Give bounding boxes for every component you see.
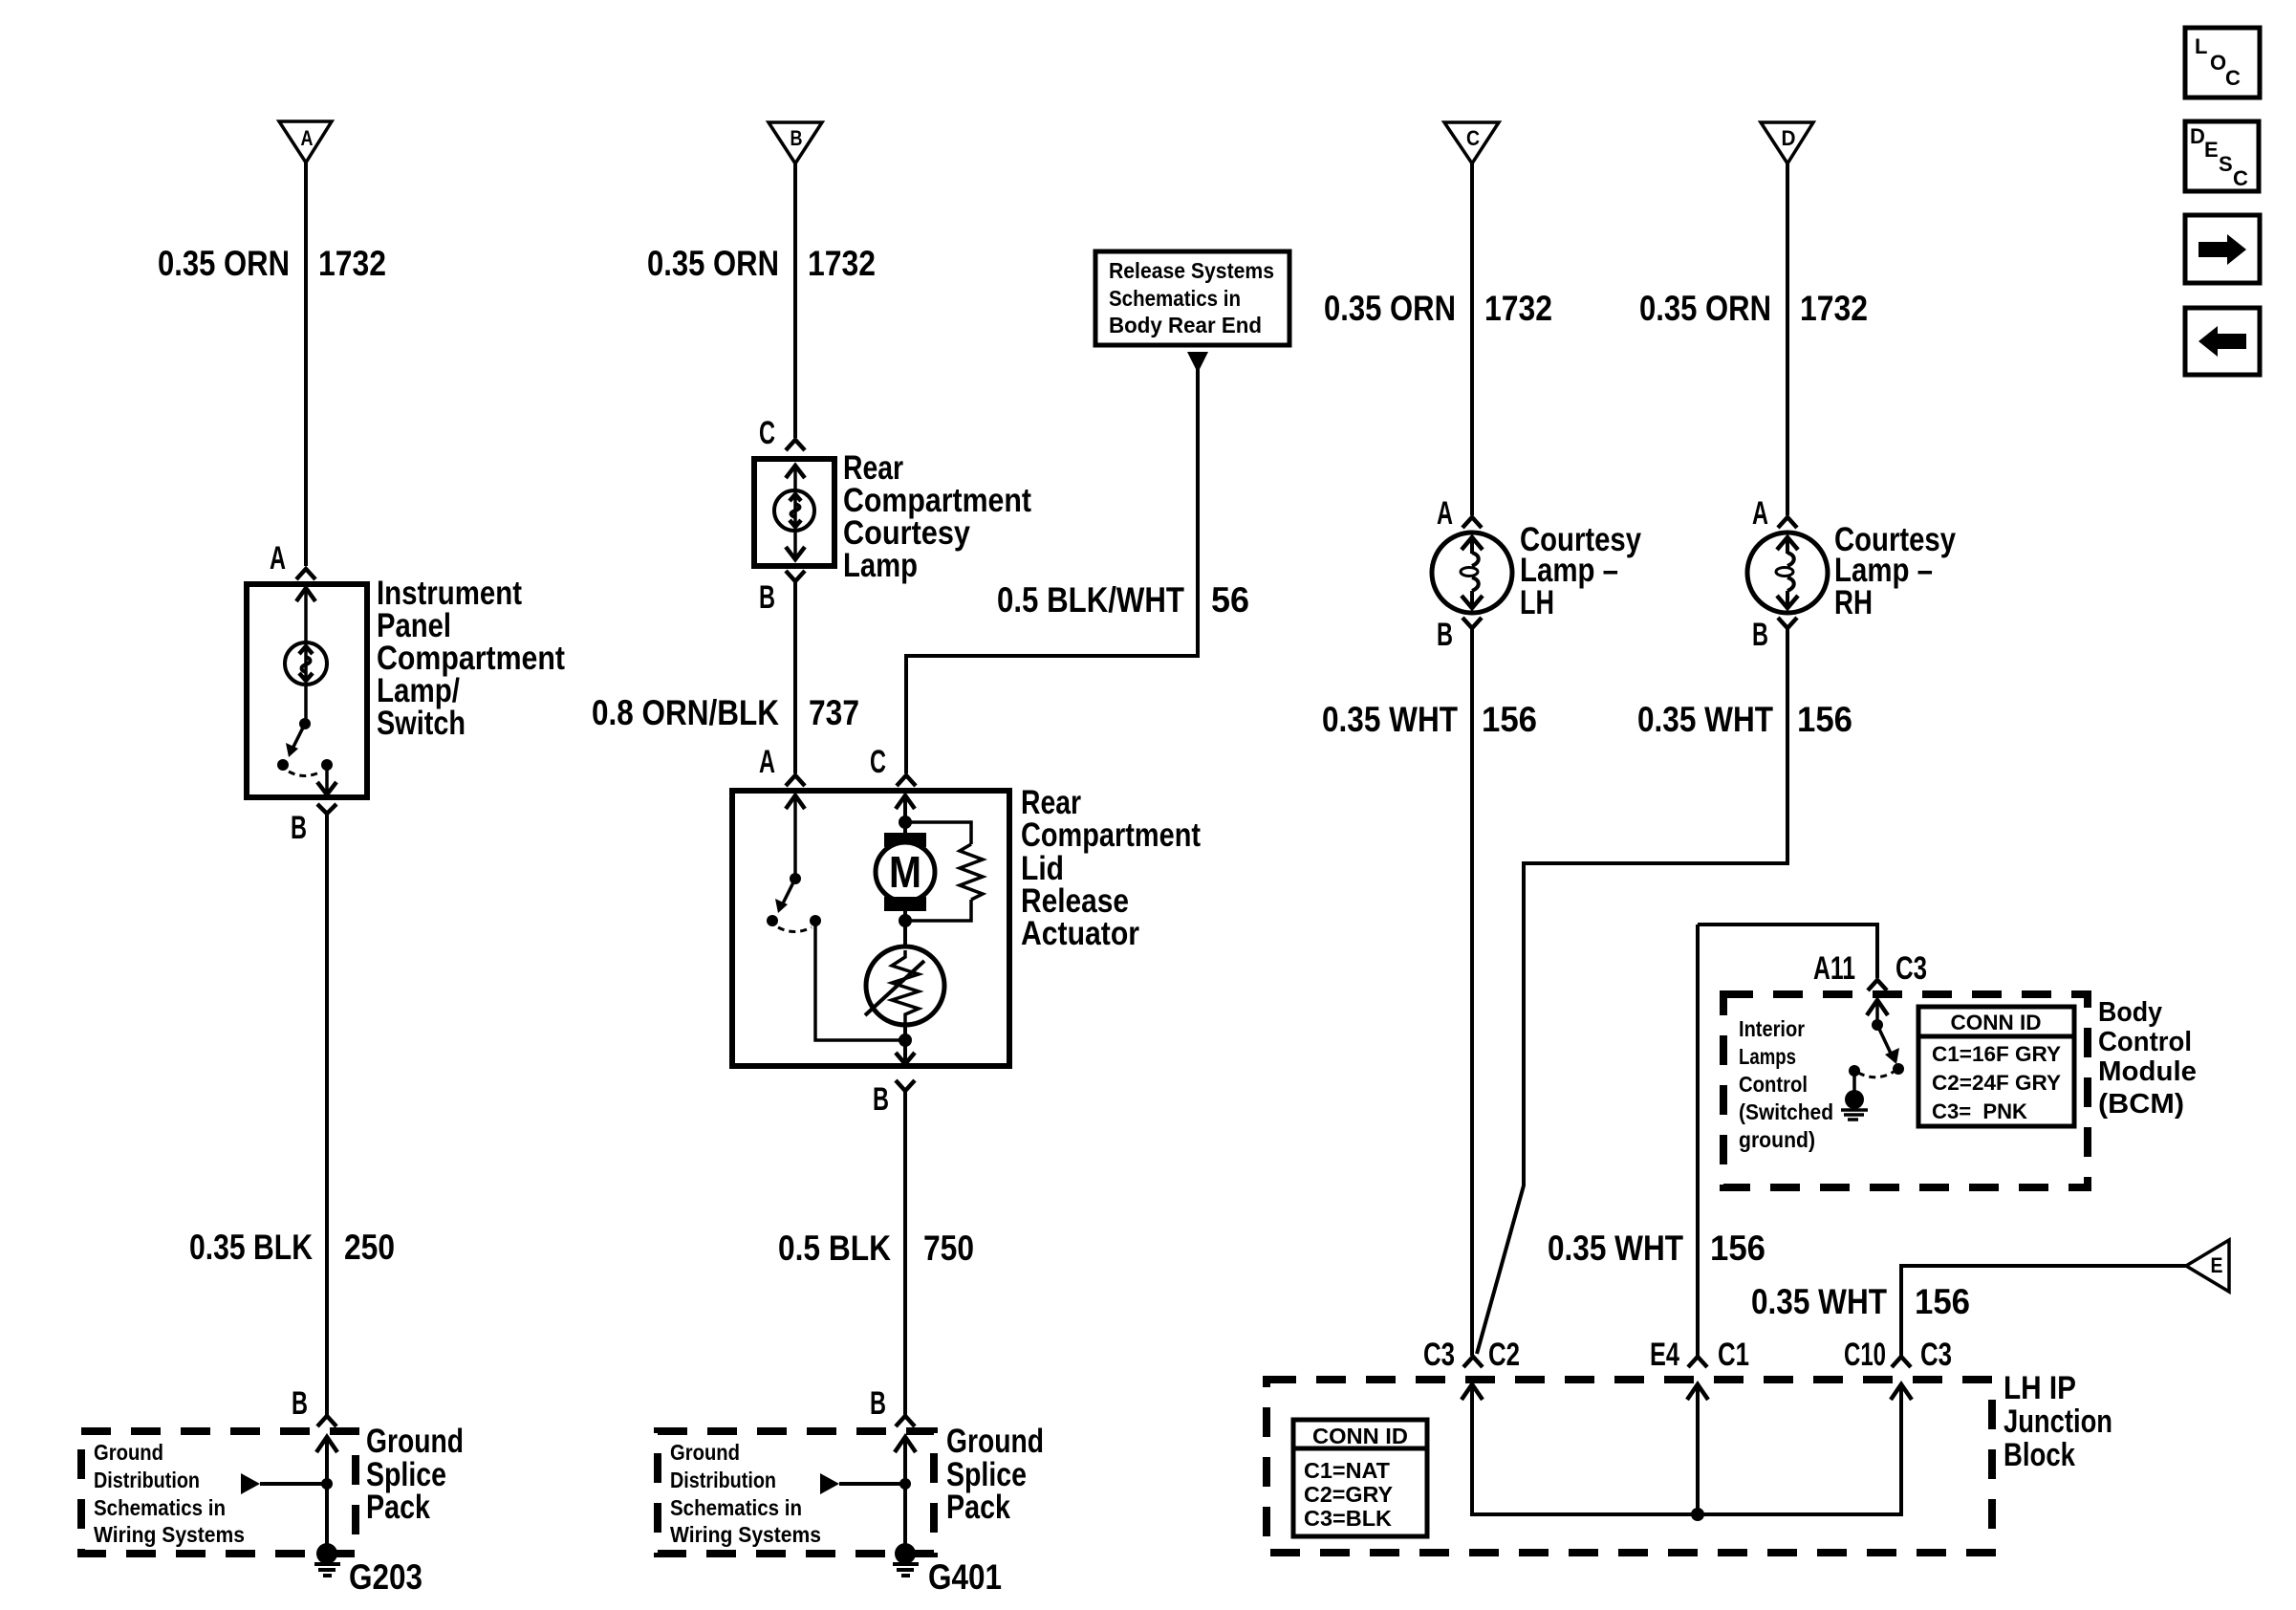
svg-text:Distribution: Distribution xyxy=(94,1468,200,1492)
svg-text:Interior: Interior xyxy=(1739,1016,1805,1041)
svg-text:Compartment: Compartment xyxy=(1021,816,1201,854)
svg-text:Lamp: Lamp xyxy=(843,547,918,584)
svg-text:B: B xyxy=(791,126,803,150)
svg-text:737: 737 xyxy=(809,693,859,732)
svg-text:0.5 BLK/WHT: 0.5 BLK/WHT xyxy=(997,580,1184,620)
svg-text:Schematics in: Schematics in xyxy=(94,1495,226,1520)
svg-text:0.35 ORN: 0.35 ORN xyxy=(647,244,779,283)
svg-text:Release Systems: Release Systems xyxy=(1109,258,1274,283)
svg-text:LH IP: LH IP xyxy=(2004,1370,2076,1406)
svg-text:A11: A11 xyxy=(1813,950,1855,987)
svg-text:C3=BLK: C3=BLK xyxy=(1304,1506,1392,1531)
svg-text:56: 56 xyxy=(1211,580,1249,620)
svg-text:Lamps: Lamps xyxy=(1739,1044,1796,1069)
svg-text:1732: 1732 xyxy=(1800,289,1868,328)
svg-text:A: A xyxy=(301,126,314,150)
svg-text:C: C xyxy=(870,744,886,780)
svg-text:Distribution: Distribution xyxy=(670,1468,776,1492)
svg-text:Ground: Ground xyxy=(94,1440,163,1465)
svg-text:C2: C2 xyxy=(1488,1337,1520,1373)
svg-text:C: C xyxy=(2225,66,2241,90)
svg-text:0.35 ORN: 0.35 ORN xyxy=(1324,289,1456,328)
svg-text:Block: Block xyxy=(2004,1437,2075,1473)
svg-text:Schematics in: Schematics in xyxy=(1109,286,1241,311)
svg-text:C1=16F GRY: C1=16F GRY xyxy=(1932,1042,2061,1066)
svg-text:Schematics in: Schematics in xyxy=(670,1495,802,1520)
svg-text:1732: 1732 xyxy=(1484,289,1552,328)
svg-text:A: A xyxy=(1437,495,1453,532)
svg-text:1732: 1732 xyxy=(808,244,876,283)
svg-text:B: B xyxy=(1437,617,1453,653)
svg-text:B: B xyxy=(292,1385,308,1422)
svg-text:RH: RH xyxy=(1834,584,1873,621)
svg-text:156: 156 xyxy=(1710,1229,1765,1268)
svg-text:Control: Control xyxy=(2098,1027,2192,1057)
svg-text:0.35 ORN: 0.35 ORN xyxy=(1639,289,1771,328)
svg-text:Ground: Ground xyxy=(366,1423,464,1460)
svg-text:LH: LH xyxy=(1520,584,1554,621)
svg-text:G401: G401 xyxy=(928,1557,1002,1597)
svg-text:C2=GRY: C2=GRY xyxy=(1304,1482,1393,1507)
svg-text:250: 250 xyxy=(344,1228,395,1267)
svg-text:Junction: Junction xyxy=(2004,1403,2112,1440)
svg-text:CONN ID: CONN ID xyxy=(1951,1011,2042,1034)
svg-text:C1=NAT: C1=NAT xyxy=(1304,1458,1390,1483)
svg-text:O: O xyxy=(2210,51,2226,75)
svg-text:(Switched: (Switched xyxy=(1739,1099,1833,1124)
svg-text:0.35 WHT: 0.35 WHT xyxy=(1322,700,1458,739)
svg-text:Wiring Systems: Wiring Systems xyxy=(670,1522,821,1547)
svg-text:B: B xyxy=(291,810,307,846)
svg-text:C: C xyxy=(759,415,775,451)
svg-text:B: B xyxy=(870,1385,886,1422)
svg-text:A: A xyxy=(759,744,775,780)
svg-text:Ground: Ground xyxy=(670,1440,740,1465)
svg-text:C3= PNK: C3= PNK xyxy=(1932,1099,2027,1123)
svg-text:B: B xyxy=(759,579,775,616)
svg-text:Body Rear End: Body Rear End xyxy=(1109,313,1262,337)
svg-text:Pack: Pack xyxy=(366,1489,430,1526)
svg-text:Module: Module xyxy=(2098,1056,2197,1087)
svg-text:C3: C3 xyxy=(1895,950,1927,987)
svg-text:Actuator: Actuator xyxy=(1021,915,1139,952)
svg-text:B: B xyxy=(873,1081,889,1118)
svg-text:0.35 ORN: 0.35 ORN xyxy=(158,244,290,283)
svg-text:A: A xyxy=(1752,495,1768,532)
svg-text:C3: C3 xyxy=(1423,1337,1455,1373)
svg-text:C3: C3 xyxy=(1920,1337,1952,1373)
svg-text:0.35 WHT: 0.35 WHT xyxy=(1751,1282,1887,1321)
svg-text:C2=24F GRY: C2=24F GRY xyxy=(1932,1071,2061,1095)
svg-text:156: 156 xyxy=(1797,700,1852,739)
svg-text:0.5 BLK: 0.5 BLK xyxy=(778,1229,891,1268)
svg-text:B: B xyxy=(1752,617,1768,653)
svg-text:CONN ID: CONN ID xyxy=(1312,1424,1408,1448)
svg-text:D: D xyxy=(1782,126,1796,150)
svg-text:Pack: Pack xyxy=(946,1489,1010,1526)
svg-text:C: C xyxy=(1466,126,1480,150)
svg-text:M: M xyxy=(889,847,921,897)
svg-text:A: A xyxy=(270,540,286,577)
svg-text:Body: Body xyxy=(2098,997,2162,1028)
svg-text:D: D xyxy=(2190,124,2205,148)
svg-text:0.35 WHT: 0.35 WHT xyxy=(1637,700,1773,739)
svg-text:1732: 1732 xyxy=(318,244,386,283)
svg-text:E4: E4 xyxy=(1650,1337,1679,1373)
svg-text:C: C xyxy=(2233,166,2248,190)
svg-text:Switch: Switch xyxy=(377,705,466,742)
svg-text:C1: C1 xyxy=(1718,1337,1749,1373)
svg-text:750: 750 xyxy=(923,1229,974,1268)
svg-text:0.35 BLK: 0.35 BLK xyxy=(189,1228,313,1267)
svg-text:E: E xyxy=(2211,1253,2223,1277)
svg-text:ground): ground) xyxy=(1739,1127,1815,1152)
svg-text:156: 156 xyxy=(1482,700,1537,739)
svg-text:Ground: Ground xyxy=(946,1423,1044,1460)
svg-text:Control: Control xyxy=(1739,1072,1808,1097)
svg-text:156: 156 xyxy=(1915,1282,1970,1321)
svg-text:Wiring Systems: Wiring Systems xyxy=(94,1522,245,1547)
svg-text:C10: C10 xyxy=(1844,1337,1886,1373)
svg-text:(BCM): (BCM) xyxy=(2098,1089,2184,1120)
svg-text:S: S xyxy=(2219,152,2233,176)
svg-text:G203: G203 xyxy=(349,1557,422,1597)
svg-text:L: L xyxy=(2195,34,2207,58)
svg-text:0.8 ORN/BLK: 0.8 ORN/BLK xyxy=(592,693,779,732)
svg-text:0.35 WHT: 0.35 WHT xyxy=(1548,1229,1683,1268)
svg-text:E: E xyxy=(2204,138,2219,162)
